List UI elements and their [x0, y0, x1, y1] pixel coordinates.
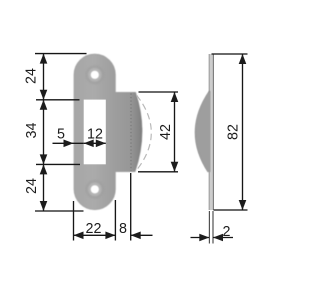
svg-text:22: 22 — [86, 221, 102, 237]
svg-text:8: 8 — [119, 221, 127, 237]
left chain bottom arrow (down) — [40, 201, 48, 211]
2 ext line right — [212, 211, 214, 244]
42 ext top — [139, 91, 179, 93]
22 arrow right — [105, 232, 115, 240]
dimension graphics — [35, 54, 248, 244]
42 ext bottom — [138, 171, 178, 173]
22 arrow left — [74, 232, 84, 240]
left chain arrows at cutout bottom — [40, 154, 48, 164]
2 dimension tail left — [191, 237, 210, 239]
left chain arrows at cutout top — [40, 90, 48, 100]
82 ext top — [212, 53, 248, 55]
ext line cutout top — [36, 99, 80, 101]
lip bend line (dotted) — [130, 93, 132, 171]
svg-text:24: 24 — [24, 68, 40, 84]
2 arrow left (right-pointing) — [199, 234, 209, 242]
82 arrow bottom (down) — [239, 200, 247, 210]
svg-text:42: 42 — [158, 124, 174, 140]
22 ext line — [73, 201, 75, 241]
2 ext line left — [208, 211, 210, 244]
top screw countersink — [87, 67, 102, 82]
svg-text:2: 2 — [223, 224, 231, 240]
bottom screw countersink — [87, 182, 102, 197]
front view: strike plate body — [74, 54, 142, 210]
side view: plate edge strip — [209, 54, 214, 210]
42 dimension line — [174, 92, 176, 172]
dimension texts — [24, 68, 242, 240]
svg-text:12: 12 — [87, 127, 103, 143]
lip edge ext line — [130, 173, 132, 241]
ext line cutout bottom — [36, 163, 80, 165]
12 dimension line — [84, 142, 106, 144]
side view: curved lip bulge — [195, 91, 210, 172]
ext line top of plate — [35, 53, 87, 55]
left chain dimension line — [43, 54, 45, 211]
ext line bottom of plate — [35, 210, 84, 212]
bottom screw hole — [91, 185, 99, 193]
5 dimension tail — [53, 142, 84, 144]
body edge ext line — [114, 200, 116, 241]
svg-text:24: 24 — [24, 178, 40, 194]
12 arrow right — [96, 140, 106, 148]
5 arrow (right) — [64, 140, 74, 148]
svg-text:82: 82 — [225, 124, 241, 140]
82 arrow top (up) — [239, 54, 247, 64]
latch cutout — [84, 100, 106, 165]
left chain top arrow (up) — [40, 54, 48, 64]
2 arrow right (left-pointing) — [213, 234, 223, 242]
lip shading — [116, 92, 142, 171]
top screw hole — [91, 71, 99, 79]
42 arrow top (up) — [171, 92, 179, 102]
lip swung-open dashed arc — [137, 95, 152, 169]
42 arrow bottom (down) — [171, 162, 179, 172]
82 ext bottom — [214, 209, 248, 211]
svg-text:34: 34 — [24, 123, 40, 139]
svg-text:5: 5 — [57, 127, 65, 143]
8 arrow (left) — [131, 232, 141, 240]
2 dimension tail right — [213, 237, 233, 239]
22 dimension line — [74, 234, 116, 236]
12 arrow left — [84, 140, 94, 148]
arrowheads — [40, 54, 247, 242]
8 dimension tail — [131, 234, 153, 236]
82 dimension line — [242, 54, 244, 210]
